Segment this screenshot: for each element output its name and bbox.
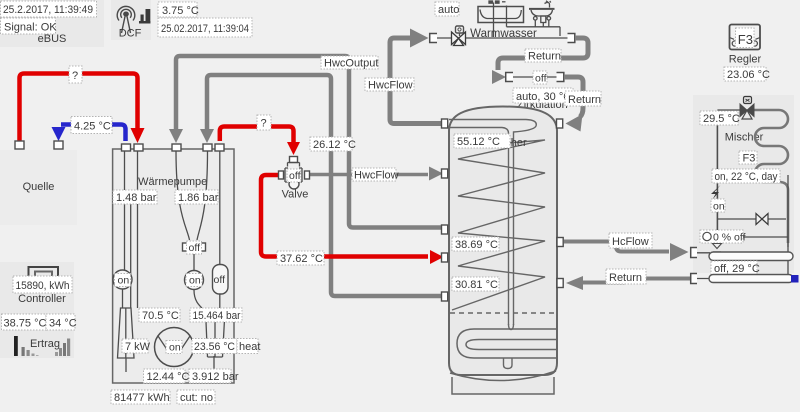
svg-text:3.912 bar: 3.912 bar bbox=[192, 371, 239, 383]
svg-text:off: off bbox=[289, 170, 301, 182]
svg-text:1.86 bar: 1.86 bar bbox=[178, 192, 219, 204]
svg-text:on: on bbox=[189, 275, 201, 287]
svg-text:HwcOutput: HwcOutput bbox=[324, 58, 378, 70]
svg-text:Regler: Regler bbox=[729, 54, 762, 66]
svg-text:Valve: Valve bbox=[282, 189, 309, 201]
svg-text:Quelle: Quelle bbox=[23, 181, 55, 193]
svg-text:cut: no: cut: no bbox=[180, 392, 213, 404]
svg-text:Return: Return bbox=[568, 94, 601, 106]
svg-text:15890, kWh: 15890, kWh bbox=[16, 280, 70, 292]
svg-text:?: ? bbox=[72, 70, 78, 82]
svg-text:F3: F3 bbox=[743, 153, 756, 165]
svg-text:on: on bbox=[713, 201, 725, 213]
svg-text:38.69 °C: 38.69 °C bbox=[455, 239, 498, 251]
svg-text:3.75 °C: 3.75 °C bbox=[162, 5, 199, 17]
svg-text:Warmwasser: Warmwasser bbox=[470, 28, 537, 40]
svg-text:15.464 bar: 15.464 bar bbox=[193, 310, 241, 322]
svg-text:70.5 °C: 70.5 °C bbox=[142, 310, 179, 322]
svg-text:55.12 °C: 55.12 °C bbox=[457, 136, 500, 148]
svg-text:HwcFlow: HwcFlow bbox=[368, 80, 413, 92]
svg-text:23.06 °C: 23.06 °C bbox=[727, 69, 770, 81]
svg-text:Return: Return bbox=[609, 272, 642, 284]
svg-text:?: ? bbox=[261, 118, 267, 130]
svg-text:off: off bbox=[214, 274, 226, 286]
svg-text:on: on bbox=[118, 275, 130, 287]
svg-text:Ertrag: Ertrag bbox=[30, 338, 60, 350]
svg-text:26.12 °C: 26.12 °C bbox=[313, 139, 356, 151]
svg-text:off, 29 °C: off, 29 °C bbox=[714, 263, 760, 275]
svg-text:F3: F3 bbox=[738, 32, 753, 47]
svg-text:auto: auto bbox=[438, 4, 459, 16]
svg-text:1.48 bar: 1.48 bar bbox=[116, 192, 157, 204]
svg-text:4.25 °C: 4.25 °C bbox=[74, 121, 111, 133]
svg-text:off: off bbox=[535, 73, 547, 85]
svg-text:eBUS: eBUS bbox=[38, 33, 67, 45]
svg-text:29.5 °C: 29.5 °C bbox=[703, 113, 740, 125]
svg-text:38.75 °C: 38.75 °C bbox=[4, 318, 47, 330]
svg-text:HcFlow: HcFlow bbox=[612, 236, 649, 248]
svg-text:on: on bbox=[169, 342, 181, 354]
svg-text:HwcFlow: HwcFlow bbox=[354, 170, 399, 182]
svg-text:Signal: OK: Signal: OK bbox=[4, 22, 57, 34]
svg-text:25.2.2017, 11:39:49: 25.2.2017, 11:39:49 bbox=[3, 4, 93, 16]
svg-text:37.62 °C: 37.62 °C bbox=[280, 253, 323, 265]
svg-text:Controller: Controller bbox=[18, 293, 66, 305]
svg-text:23.56 °C: 23.56 °C bbox=[194, 341, 235, 353]
svg-text:heat: heat bbox=[239, 341, 260, 353]
svg-text:DCF: DCF bbox=[119, 28, 142, 40]
svg-text:81477 kWh: 81477 kWh bbox=[114, 392, 170, 404]
svg-text:off: off bbox=[189, 242, 201, 254]
svg-text:12.44 °C: 12.44 °C bbox=[147, 371, 190, 383]
svg-text:25.02.2017, 11:39:04: 25.02.2017, 11:39:04 bbox=[161, 23, 249, 35]
svg-text:30.81 °C: 30.81 °C bbox=[455, 279, 498, 291]
svg-text:on, 22 °C, day: on, 22 °C, day bbox=[715, 171, 778, 183]
svg-text:Wärmepumpe: Wärmepumpe bbox=[138, 176, 207, 188]
svg-text:Return: Return bbox=[528, 51, 561, 63]
svg-text:auto, 30 °C: auto, 30 °C bbox=[516, 91, 571, 103]
svg-text:34 °C: 34 °C bbox=[49, 318, 77, 330]
svg-text:0 % off: 0 % off bbox=[713, 232, 746, 244]
svg-text:7 kW: 7 kW bbox=[125, 341, 151, 353]
